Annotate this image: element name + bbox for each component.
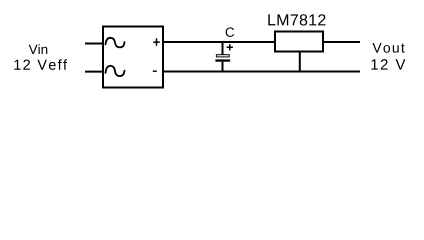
wire bottom input — [85, 71, 104, 73]
capacitor C bottom lead — [222, 62, 224, 72]
wire output rail — [324, 41, 360, 43]
label 12 Veff — [14, 59, 67, 70]
wire top rail rectifier to regulator — [163, 41, 275, 43]
label C — [226, 27, 235, 37]
AC sine symbol bottom — [106, 66, 125, 76]
capacitor C polarity plus — [227, 44, 233, 50]
label 12 V — [371, 59, 405, 69]
minus terminal mark — [153, 70, 157, 72]
wire top input — [85, 43, 104, 45]
capacitor C negative plate — [215, 59, 230, 61]
bridge rectifier box — [103, 27, 163, 88]
wire bottom rail — [163, 71, 360, 73]
capacitor C top lead — [222, 42, 224, 55]
AC sine symbol top — [106, 38, 125, 48]
plus terminal mark — [153, 38, 160, 45]
regulator LM7812 box — [275, 32, 323, 52]
regulator ground pin — [299, 52, 301, 72]
label Vin — [29, 44, 48, 54]
label Vout — [372, 43, 404, 53]
label LM7812 — [268, 14, 325, 25]
capacitor C positive plate — [216, 55, 229, 57]
